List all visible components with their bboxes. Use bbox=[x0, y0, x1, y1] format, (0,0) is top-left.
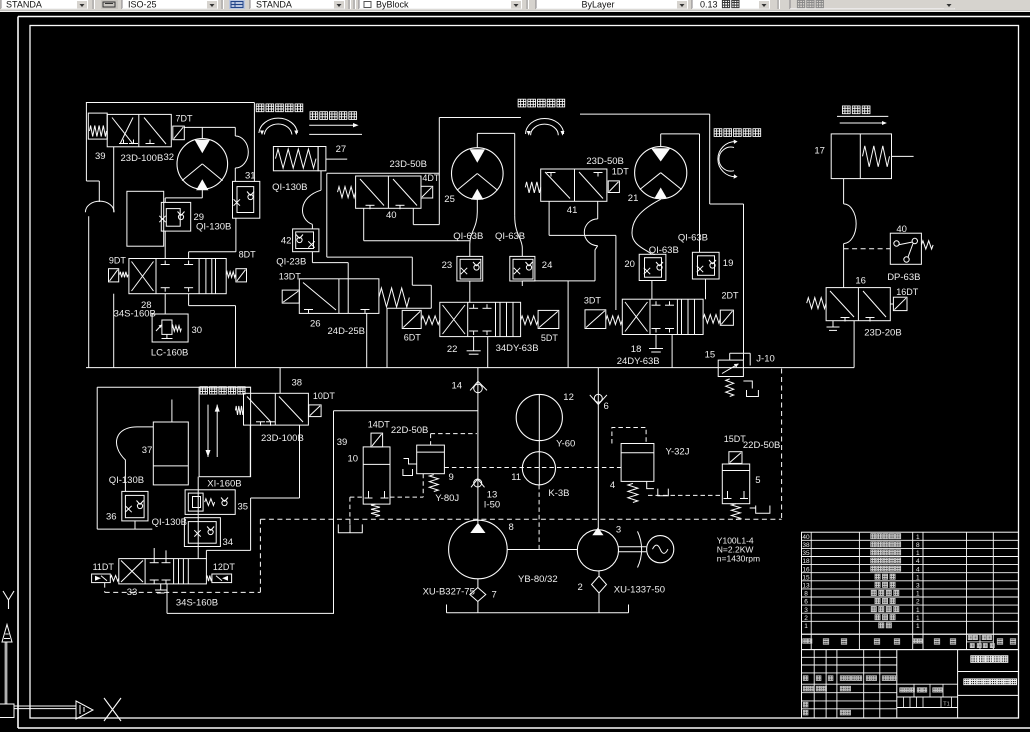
valve 33 34S-160B body bbox=[119, 559, 207, 584]
svg-text:38: 38 bbox=[802, 542, 810, 549]
wire valve41 left port bbox=[548, 201, 550, 235]
svg-text:35: 35 bbox=[802, 550, 810, 557]
svg-text:Y-32J: Y-32J bbox=[666, 447, 690, 458]
svg-text:13: 13 bbox=[802, 583, 810, 590]
valve 16 23D-20B body bbox=[826, 288, 890, 321]
title block lower grid bbox=[802, 650, 1019, 718]
dashed pilot to valve5 bbox=[648, 494, 722, 496]
drawing sheet outer border bbox=[18, 16, 1030, 18]
pressure switch 11 K-3B bbox=[522, 452, 555, 485]
svg-text:7DT: 7DT bbox=[176, 114, 194, 124]
svg-text:36: 36 bbox=[106, 511, 117, 522]
svg-text:23D-20B: 23D-20B bbox=[864, 327, 902, 338]
svg-text:12DT: 12DT bbox=[213, 562, 236, 572]
spring valve26 right bbox=[379, 288, 409, 307]
svg-text:T1: T1 bbox=[943, 701, 949, 707]
svg-text:16DT: 16DT bbox=[896, 287, 919, 297]
svg-text:32: 32 bbox=[164, 152, 175, 163]
wire left drop to bus bbox=[88, 216, 90, 367]
pump 3 bbox=[577, 530, 618, 571]
annotation positioning cylinder bbox=[842, 106, 850, 114]
svg-text:QI-130B: QI-130B bbox=[196, 222, 231, 233]
svg-text:QI-63B: QI-63B bbox=[649, 245, 679, 256]
valve16 tank bbox=[832, 321, 834, 327]
svg-text:1: 1 bbox=[916, 574, 920, 581]
svg-text:XI-160B: XI-160B bbox=[207, 479, 241, 490]
svg-text:Y-60: Y-60 bbox=[556, 439, 575, 450]
svg-text:YB-80/32: YB-80/32 bbox=[518, 574, 558, 585]
relief valve 9 22D-50B bbox=[417, 445, 445, 474]
wire valve39 port drop bbox=[113, 147, 115, 212]
svg-text:STANDA: STANDA bbox=[6, 0, 42, 10]
svg-text:18: 18 bbox=[802, 558, 810, 565]
svg-text:Y-80J: Y-80J bbox=[435, 493, 459, 504]
svg-text:9: 9 bbox=[449, 472, 454, 483]
valve 35 XI-160B bbox=[185, 490, 235, 515]
svg-text:21: 21 bbox=[628, 193, 639, 204]
wire valve33 top stubs bbox=[153, 548, 155, 559]
svg-text:QI-63B: QI-63B bbox=[678, 233, 708, 244]
valve 18 24DY-63B body bbox=[622, 299, 703, 334]
wire tank line bbox=[447, 612, 629, 614]
svg-text:4DT: 4DT bbox=[422, 173, 440, 183]
main pressure bus wire bbox=[86, 367, 854, 369]
reducing valve 5 22D-50B bbox=[729, 452, 742, 464]
wire cyl17 down with hop bbox=[843, 179, 845, 204]
svg-text:24: 24 bbox=[542, 260, 553, 271]
svg-text:11DT: 11DT bbox=[93, 562, 115, 572]
solenoid 5DT bbox=[521, 316, 539, 325]
svg-text:31: 31 bbox=[245, 171, 256, 182]
wire pump section left edge bbox=[333, 411, 335, 614]
solenoid 8DT bbox=[226, 272, 235, 278]
svg-text:25: 25 bbox=[444, 194, 455, 205]
wire valve16 to bus bbox=[853, 321, 855, 368]
annotation finger-clamp arrow lines bbox=[309, 124, 353, 126]
valve22 tank T bbox=[473, 337, 475, 351]
svg-text:9DT: 9DT bbox=[109, 256, 127, 266]
solenoid 6DT bbox=[402, 310, 421, 328]
svg-text:3: 3 bbox=[804, 607, 808, 614]
wire block21 top bbox=[580, 113, 710, 115]
svg-text:QI-130B: QI-130B bbox=[109, 475, 144, 486]
wire valve41 right port with hop bbox=[597, 201, 599, 219]
svg-text:1: 1 bbox=[916, 591, 920, 598]
valve15 drain bracket bbox=[743, 381, 752, 389]
valve 26 24D-25B body bbox=[299, 279, 379, 314]
svg-text:ISO-25: ISO-25 bbox=[128, 0, 157, 10]
svg-text:19: 19 bbox=[723, 258, 734, 269]
dashed right riser bbox=[781, 369, 783, 520]
annotation wrist-rotate cylinder bbox=[714, 129, 722, 137]
svg-text:QI-130B: QI-130B bbox=[272, 182, 307, 193]
wire block 40 left enclosure bbox=[326, 173, 328, 257]
wire motor25 top pipe bbox=[476, 133, 478, 147]
solenoid 10DT bbox=[309, 405, 321, 417]
wire bypass loop rect bbox=[127, 191, 164, 246]
svg-text:3: 3 bbox=[616, 525, 621, 536]
wire motor32 bottom pipe bbox=[201, 189, 203, 198]
svg-text:2: 2 bbox=[578, 582, 583, 593]
wire valve28 right port to bus bbox=[188, 294, 190, 306]
svg-text:J-10: J-10 bbox=[756, 353, 774, 364]
valve 40b DP-63B bbox=[890, 233, 921, 264]
svg-text:ByLayer: ByLayer bbox=[581, 0, 614, 10]
wire valve38 ports down bbox=[249, 425, 251, 477]
motor M25 circle bbox=[452, 148, 504, 200]
annotation wrist-swing cylinder bbox=[518, 99, 526, 107]
svg-text:DP-63B: DP-63B bbox=[887, 272, 920, 283]
svg-text:3: 3 bbox=[916, 583, 920, 590]
wire checks19/20 to valve18 bbox=[651, 281, 653, 300]
valve 30 LC-160B bbox=[152, 314, 188, 342]
wire motor21 top pipe bbox=[660, 134, 662, 147]
UCS icon X axis bbox=[14, 705, 76, 707]
solenoid 16DT bbox=[893, 297, 907, 310]
svg-text:16: 16 bbox=[855, 276, 866, 287]
check valve 20 QI-63B bbox=[639, 254, 666, 280]
valve 39 23D-100B body bbox=[107, 114, 171, 146]
check valve 23 QI-63B bbox=[457, 256, 483, 281]
filter 2 diamond bbox=[592, 576, 607, 593]
title block parts list bbox=[802, 532, 1019, 634]
relief valve 4 Y-32J bbox=[612, 428, 646, 444]
svg-text:22: 22 bbox=[447, 344, 458, 355]
wire checks to valve22 bbox=[469, 281, 471, 302]
motor M21 circle bbox=[635, 147, 687, 199]
svg-text:8: 8 bbox=[916, 542, 920, 549]
wire motor25 right branch bbox=[514, 133, 516, 215]
svg-text:10: 10 bbox=[348, 454, 359, 465]
svg-text:2: 2 bbox=[804, 615, 808, 622]
wire valve36 down bbox=[134, 521, 136, 529]
svg-text:1: 1 bbox=[916, 534, 920, 541]
svg-text:8: 8 bbox=[509, 522, 514, 533]
svg-text:4: 4 bbox=[916, 558, 920, 565]
svg-text:1DT: 1DT bbox=[612, 167, 630, 177]
wire check24-row link bbox=[522, 280, 595, 282]
svg-text:41: 41 bbox=[567, 205, 578, 216]
svg-text:22D-50B: 22D-50B bbox=[743, 440, 781, 451]
svg-text:0.13: 0.13 bbox=[700, 0, 718, 10]
wire drop through 34 bbox=[197, 477, 199, 559]
check valve 14 bbox=[470, 381, 487, 390]
check valve 42 QI-23B bbox=[293, 229, 319, 252]
svg-text:40: 40 bbox=[386, 210, 397, 221]
spring valve16 bbox=[807, 298, 826, 309]
svg-text:38: 38 bbox=[292, 378, 303, 389]
wire riser2 pump3 bbox=[597, 368, 599, 530]
check valve 31 QI-130B bbox=[233, 181, 260, 218]
svg-text:23: 23 bbox=[442, 260, 453, 271]
check valve 6 bbox=[590, 395, 607, 405]
svg-text:8: 8 bbox=[804, 591, 808, 598]
pump 8 bbox=[449, 520, 508, 579]
svg-text:15: 15 bbox=[802, 574, 810, 581]
svg-text:23D-50B: 23D-50B bbox=[390, 159, 428, 170]
wire enclosure right edge bbox=[253, 103, 255, 182]
check valve 24 QI-63B bbox=[510, 256, 535, 281]
title text drawing name bbox=[964, 679, 970, 685]
svg-text:QI-130B: QI-130B bbox=[152, 517, 187, 528]
toolbar bbox=[0, 0, 1030, 10]
title text unit name bbox=[971, 656, 977, 662]
wire check42 to valve26 bbox=[311, 252, 313, 263]
UCS icon Y axis bbox=[3, 591, 14, 609]
svg-text:16: 16 bbox=[802, 566, 810, 573]
check valve 36 QI-130B bbox=[122, 491, 148, 521]
svg-text:6: 6 bbox=[604, 401, 609, 412]
dashed pilot valve9 bbox=[430, 434, 432, 446]
wire block21 right return bbox=[709, 114, 711, 204]
check valve 13 I-50 bbox=[471, 479, 485, 487]
wire valve18 port to bus bbox=[671, 335, 673, 368]
gauge 12 Y-60 bbox=[516, 394, 562, 440]
dashed pilot from 11DT bbox=[104, 583, 106, 593]
wire cyl37 to valve36 bbox=[116, 427, 153, 492]
wire pilot drop 615 bbox=[615, 235, 617, 310]
dashed valve10 drains bbox=[350, 496, 363, 498]
svg-text:1: 1 bbox=[916, 623, 920, 630]
svg-text:1: 1 bbox=[804, 623, 808, 630]
cylinder 27 QI-130B spring bbox=[273, 147, 318, 171]
svg-text:40: 40 bbox=[896, 224, 907, 235]
wire check29 to valve28 bbox=[164, 231, 166, 258]
solenoid 11DT bbox=[92, 574, 111, 583]
wire motor25 bottom branch bbox=[476, 199, 478, 212]
valve 41 23D-50B body bbox=[541, 169, 607, 201]
svg-text:XU-B327-75: XU-B327-75 bbox=[423, 587, 475, 598]
spring valve15 below bbox=[726, 379, 734, 397]
svg-text:22D-50B: 22D-50B bbox=[391, 425, 429, 436]
annotation finger-clamp cylinder text bbox=[310, 112, 318, 120]
annotation arm-rotate cylinder text bbox=[256, 104, 264, 112]
wire pump8-pump3 bbox=[507, 549, 577, 551]
wire pump section top bbox=[334, 410, 478, 412]
wire bottom-left enclosure bbox=[97, 386, 250, 388]
sequence valve 10 bbox=[371, 433, 383, 447]
svg-text:6DT: 6DT bbox=[404, 333, 422, 343]
valve 15 J-10 body bbox=[718, 360, 743, 376]
svg-text:QI-63B: QI-63B bbox=[495, 231, 525, 242]
svg-text:35: 35 bbox=[238, 502, 249, 513]
wire pipe hop arc left bbox=[85, 201, 114, 212]
valve18 tank T bbox=[655, 335, 657, 349]
wire valve33 return to tank line bbox=[166, 584, 168, 614]
svg-text:4: 4 bbox=[916, 566, 920, 573]
svg-text:n=1430rpm: n=1430rpm bbox=[717, 554, 760, 564]
svg-text:1: 1 bbox=[916, 550, 920, 557]
svg-text:14DT: 14DT bbox=[368, 419, 391, 429]
svg-text:8DT: 8DT bbox=[239, 249, 257, 259]
check valve 29 QI-130B bbox=[161, 202, 190, 231]
svg-text:13DT: 13DT bbox=[279, 272, 302, 282]
svg-text:10DT: 10DT bbox=[313, 391, 336, 401]
svg-text:40: 40 bbox=[802, 534, 810, 541]
solenoid 12DT bbox=[212, 574, 232, 583]
check valve 34 QI-130B bbox=[184, 518, 220, 547]
wire top-left enclosure bbox=[86, 102, 255, 104]
parts list header row bbox=[802, 634, 1019, 649]
svg-text:2: 2 bbox=[916, 599, 920, 606]
svg-text:34: 34 bbox=[223, 537, 234, 548]
svg-text:39: 39 bbox=[95, 151, 106, 162]
valve33 tank T below bbox=[160, 584, 162, 590]
svg-text:1: 1 bbox=[916, 607, 920, 614]
wire block25 top bbox=[439, 117, 521, 119]
svg-text:15: 15 bbox=[705, 349, 716, 360]
solenoid 2DT bbox=[703, 315, 720, 324]
solenoid 7DT bbox=[173, 126, 185, 140]
wire cyl27 to check42 with hop bbox=[320, 171, 322, 190]
spring valve40 bbox=[338, 187, 356, 198]
svg-text:4: 4 bbox=[610, 480, 615, 491]
svg-text:17: 17 bbox=[814, 145, 825, 156]
svg-text:23D-100B: 23D-100B bbox=[121, 153, 164, 164]
wire tank line left bbox=[167, 612, 334, 614]
cylinder 37 bbox=[153, 422, 188, 485]
dashed main pilot bus bbox=[260, 518, 781, 520]
svg-text:24DY-63B: 24DY-63B bbox=[617, 356, 660, 367]
wire valve40 ports bbox=[363, 208, 365, 240]
svg-text:ByBlock: ByBlock bbox=[376, 0, 409, 10]
svg-text:LC-160B: LC-160B bbox=[151, 348, 189, 359]
svg-text:23D-100B: 23D-100B bbox=[261, 433, 304, 444]
svg-text:27: 27 bbox=[336, 144, 347, 155]
solenoid 13DT bbox=[282, 290, 299, 303]
wire valve28 to valve30 bbox=[164, 294, 166, 314]
svg-text:24D-25B: 24D-25B bbox=[328, 326, 366, 337]
svg-text:42: 42 bbox=[281, 236, 292, 247]
electric motor symbol bbox=[619, 546, 647, 548]
UCS icon box bbox=[0, 704, 14, 718]
valve 38 23D-100B body bbox=[244, 393, 309, 425]
svg-text:K-3B: K-3B bbox=[548, 488, 569, 499]
wire valve26 spring link box bbox=[412, 284, 431, 286]
wire motor32 top pipe bbox=[184, 126, 235, 128]
svg-text:STANDA: STANDA bbox=[256, 0, 292, 10]
svg-text:1: 1 bbox=[916, 615, 920, 622]
svg-text:XU-1337-50: XU-1337-50 bbox=[614, 585, 665, 596]
pitch cylinder box bbox=[199, 387, 251, 477]
svg-text:3DT: 3DT bbox=[584, 295, 602, 305]
spring valve38 bbox=[236, 406, 244, 415]
svg-text:18: 18 bbox=[631, 344, 642, 355]
solenoid 4DT bbox=[421, 186, 433, 198]
svg-text:I-50: I-50 bbox=[484, 499, 500, 510]
svg-text:5: 5 bbox=[755, 475, 760, 486]
motor M32 circle bbox=[177, 139, 228, 190]
svg-text:6: 6 bbox=[804, 599, 808, 606]
wire valve26 ports to bus bbox=[386, 308, 388, 367]
solenoid 9DT bbox=[109, 269, 119, 282]
svg-text:QI-63B: QI-63B bbox=[453, 231, 483, 242]
annotation arm-pitch cylinder bbox=[200, 387, 207, 394]
svg-text:QI-23B: QI-23B bbox=[276, 257, 306, 268]
wire main riser pump8 bbox=[477, 368, 479, 523]
solenoid 3DT bbox=[585, 310, 606, 329]
svg-text:34DY-63B: 34DY-63B bbox=[496, 343, 539, 354]
cylinder 17 bbox=[831, 134, 891, 179]
wire pilot dashed to DP-63B bbox=[844, 248, 891, 250]
svg-text:39: 39 bbox=[337, 437, 348, 448]
wire motor32 right pipe with hop bbox=[234, 127, 236, 136]
wire bus to valve38 bbox=[279, 368, 281, 394]
svg-text:34S-160B: 34S-160B bbox=[176, 598, 218, 609]
wire valve28 left drain bbox=[113, 294, 115, 368]
valve 28 34S-160B body bbox=[129, 259, 226, 294]
svg-text:30: 30 bbox=[192, 325, 203, 336]
wire shared edge block40/25 bbox=[438, 118, 440, 225]
valve 39 spring bbox=[88, 113, 107, 139]
filter 7 diamond bbox=[470, 588, 486, 602]
valve 22 34DY-63B body bbox=[440, 302, 521, 336]
dashed pilot line mid bbox=[444, 467, 621, 469]
svg-text:12: 12 bbox=[563, 392, 574, 403]
wire block40 top bbox=[327, 172, 440, 174]
solenoid 1DT bbox=[608, 181, 619, 193]
svg-text:37: 37 bbox=[142, 445, 153, 456]
svg-text:34S-160B: 34S-160B bbox=[114, 309, 156, 320]
svg-text:14: 14 bbox=[452, 381, 463, 392]
svg-text:2DT: 2DT bbox=[722, 290, 740, 300]
svg-text:26: 26 bbox=[310, 319, 321, 330]
check valve 19 QI-63B bbox=[692, 252, 719, 279]
svg-text:5DT: 5DT bbox=[541, 333, 559, 343]
spring valve41 bbox=[525, 182, 540, 193]
annotation arm-rotate arc bbox=[259, 118, 298, 133]
valve 40 23D-50B body bbox=[356, 176, 421, 208]
svg-text:11: 11 bbox=[511, 472, 521, 483]
wire motor21 bottom to check20 bbox=[632, 199, 661, 254]
svg-text:20: 20 bbox=[624, 259, 635, 270]
wire check31 to valve28 bbox=[235, 218, 237, 252]
svg-text:23D-50B: 23D-50B bbox=[586, 156, 624, 167]
svg-text:7: 7 bbox=[492, 590, 497, 601]
